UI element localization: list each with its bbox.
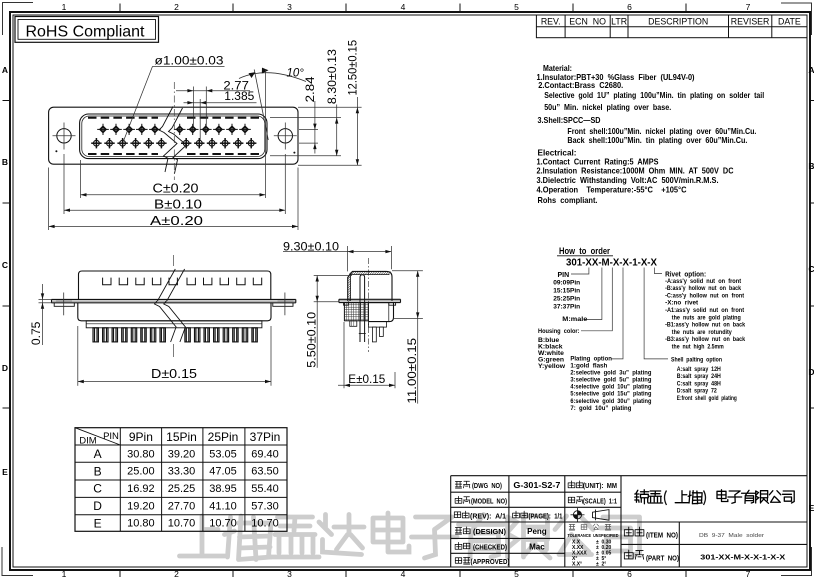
svg-text:B: B bbox=[94, 464, 102, 478]
svg-text:Peng: Peng bbox=[527, 527, 547, 536]
zone numbers bottom bbox=[62, 569, 751, 577]
svg-text:1.385: 1.385 bbox=[224, 91, 254, 103]
svg-text:(PART NO): (PART NO) bbox=[646, 554, 679, 563]
svg-text:Shell palting option: Shell palting option bbox=[671, 357, 722, 364]
svg-text:DIM: DIM bbox=[79, 436, 97, 447]
title block grid bbox=[451, 476, 807, 567]
svg-text:D: D bbox=[2, 363, 8, 373]
side view tail block bbox=[369, 322, 387, 328]
zone letters right bbox=[808, 65, 814, 513]
tolerance unspecified block bbox=[568, 524, 620, 567]
order option shell plating bbox=[671, 357, 737, 402]
svg-text:1: 1 bbox=[62, 2, 67, 12]
svg-text:ø1.00±0.03: ø1.00±0.03 bbox=[155, 55, 224, 67]
dimension 2.84 row spacing bbox=[299, 76, 318, 154]
svg-text:PIN: PIN bbox=[558, 272, 570, 279]
dimension table bbox=[75, 428, 287, 532]
side view center contact blade bbox=[359, 275, 366, 342]
svg-text:Plating option: Plating option bbox=[570, 356, 612, 363]
svg-text:G-301-S2-7: G-301-S2-7 bbox=[513, 481, 561, 490]
zone ticks right bbox=[810, 101, 814, 409]
dimension 9.30±0.10 bbox=[283, 241, 391, 271]
svg-text:9.30±0.10: 9.30±0.10 bbox=[283, 241, 339, 253]
svg-text:41.10: 41.10 bbox=[209, 500, 237, 512]
svg-text:7: gold 10u” plating: 7: gold 10u” plating bbox=[570, 405, 631, 412]
title block design row bbox=[455, 527, 546, 536]
svg-text:D: D bbox=[808, 367, 814, 377]
svg-text:301-XX-M-X-X-1-X-X: 301-XX-M-X-X-1-X-X bbox=[700, 552, 785, 561]
svg-text:(DWG NO): (DWG NO) bbox=[472, 481, 502, 490]
svg-text:(APPROVED): (APPROVED) bbox=[471, 557, 510, 566]
side view lower step hatched bbox=[350, 321, 357, 327]
zone letters left bbox=[2, 65, 8, 477]
middle view break line left bbox=[155, 269, 177, 342]
svg-text:DATE: DATE bbox=[778, 16, 801, 26]
svg-text:10.70: 10.70 bbox=[209, 518, 237, 530]
svg-text:5:selective gold 15u” plati: 5:selective gold 15u” plating bbox=[570, 391, 651, 398]
svg-text:A:salt spray 12H: A:salt spray 12H bbox=[677, 366, 721, 373]
svg-text:57.30: 57.30 bbox=[251, 500, 279, 512]
svg-text:E: E bbox=[809, 503, 814, 513]
svg-text:12.50±0.15: 12.50±0.15 bbox=[348, 40, 360, 96]
title block checked row bbox=[455, 542, 545, 551]
middle view insulator end ledges bbox=[54, 303, 293, 307]
svg-text:3.Shell:SPCC—SD: 3.Shell:SPCC—SD bbox=[538, 115, 601, 125]
side view under-flange steps bbox=[344, 303, 396, 306]
svg-text:(PAGE): 1/1: (PAGE): 1/1 bbox=[529, 511, 563, 520]
svg-text:(REV): A/1: (REV): A/1 bbox=[470, 511, 506, 520]
svg-text:1: 1 bbox=[62, 569, 67, 577]
svg-text:DB 9-37 Male solder: DB 9-37 Male solder bbox=[699, 533, 764, 539]
svg-text:4: 4 bbox=[401, 569, 406, 577]
svg-text:C: C bbox=[808, 264, 814, 274]
side view solder tail 2 bbox=[372, 327, 376, 342]
zone numbers top bbox=[62, 2, 751, 12]
svg-text:-C:ass'y hollow nut on fro: -C:ass'y hollow nut on front bbox=[665, 292, 745, 299]
svg-text:15Pin: 15Pin bbox=[166, 430, 197, 444]
svg-text:16.92: 16.92 bbox=[127, 483, 155, 495]
small reference dots bbox=[55, 150, 295, 153]
svg-text:E: E bbox=[2, 467, 8, 477]
svg-text:Mac: Mac bbox=[529, 543, 545, 552]
projection symbol cone bbox=[593, 510, 610, 521]
svg-text:2: 2 bbox=[174, 2, 179, 12]
svg-text:the nut high 2.5mm: the nut high 2.5mm bbox=[672, 344, 724, 351]
svg-text:DESCRIPTION: DESCRIPTION bbox=[648, 16, 708, 26]
svg-text:53.05: 53.05 bbox=[209, 448, 237, 460]
zone ticks top bbox=[120, 4, 686, 13]
svg-text:27.70: 27.70 bbox=[168, 500, 196, 512]
svg-text:RoHS Compliant: RoHS Compliant bbox=[26, 23, 146, 40]
svg-text:PIN: PIN bbox=[103, 431, 119, 442]
svg-text:A±0.20: A±0.20 bbox=[150, 213, 203, 228]
title block dwg no row bbox=[455, 481, 617, 490]
svg-text:E: E bbox=[94, 516, 102, 530]
svg-text:11.00±0.15: 11.00±0.15 bbox=[407, 338, 419, 404]
svg-text:15:15Pin: 15:15Pin bbox=[553, 287, 580, 294]
svg-text:C: C bbox=[2, 260, 8, 270]
middle view flange plate bbox=[52, 299, 296, 302]
front view shell dashed tab lines bbox=[88, 118, 259, 154]
dimension 12.50±0.15 flange height bbox=[298, 40, 362, 165]
svg-text:(UNIT): MM: (UNIT): MM bbox=[583, 481, 617, 490]
dimension 1.385 row offset bbox=[184, 91, 257, 140]
svg-text:3: 3 bbox=[287, 569, 292, 577]
svg-text:5: 5 bbox=[514, 2, 519, 12]
part no cell bbox=[624, 550, 785, 562]
dimension leader ø1.00±0.03 bbox=[123, 55, 224, 141]
middle view mounting centerline left bbox=[56, 293, 72, 316]
mounting hole left bbox=[53, 123, 76, 150]
svg-text:37:37Pin: 37:37Pin bbox=[553, 303, 580, 310]
svg-text:4:selective gold 10u” plati: 4:selective gold 10u” plating bbox=[570, 384, 651, 391]
svg-text:E±0.15: E±0.15 bbox=[348, 374, 385, 386]
svg-text:39.20: 39.20 bbox=[168, 448, 196, 460]
front view pin column centerline bbox=[173, 82, 175, 180]
side view body right half bbox=[369, 303, 394, 322]
svg-text:19.20: 19.20 bbox=[127, 500, 155, 512]
svg-text:7: 7 bbox=[746, 2, 751, 12]
dimension B±0.10 bbox=[64, 154, 285, 214]
svg-text:-A1:ass'y solid nut on fro: -A1:ass'y solid nut on front bbox=[665, 307, 745, 314]
svg-text:M:male: M:male bbox=[562, 316, 587, 323]
svg-text:5: 5 bbox=[514, 569, 519, 577]
svg-text:25.25: 25.25 bbox=[168, 483, 196, 495]
svg-text:0.75: 0.75 bbox=[31, 322, 43, 346]
svg-text:A: A bbox=[808, 65, 814, 75]
title block rev row bbox=[454, 511, 562, 520]
svg-text:the nuts are gold plating: the nuts are gold plating bbox=[672, 314, 741, 321]
svg-text:2.84: 2.84 bbox=[305, 76, 317, 103]
svg-text:B: B bbox=[2, 157, 8, 167]
svg-text:Housing color:: Housing color: bbox=[538, 328, 580, 335]
svg-text:5.50±0.10: 5.50±0.10 bbox=[307, 312, 319, 368]
svg-text:4.Operation Temperature:-55: 4.Operation Temperature:-55°C +105°C bbox=[537, 185, 687, 195]
svg-text:(CHECKED): (CHECKED) bbox=[473, 543, 507, 552]
svg-text:REV.: REV. bbox=[541, 16, 561, 26]
side view insulator section hatched bbox=[344, 303, 368, 321]
svg-text:-B:ass'y hollow nut on bac: -B:ass'y hollow nut on back bbox=[665, 285, 741, 292]
svg-text:37Pin: 37Pin bbox=[250, 430, 281, 444]
RoHS Compliant label box bbox=[15, 17, 159, 43]
dimension E±0.15 bbox=[338, 322, 395, 388]
svg-text:69.40: 69.40 bbox=[251, 448, 279, 460]
svg-text:E:front shell gold plating: E:front shell gold plating bbox=[677, 395, 737, 402]
svg-text:3.Dielectric Withstanding Vo: 3.Dielectric Withstanding Volt:AC 500V/m… bbox=[537, 175, 719, 185]
svg-text:A: A bbox=[94, 447, 102, 461]
middle view shell face notches bbox=[103, 278, 262, 285]
middle view vertical centerline bbox=[173, 255, 175, 357]
svg-text:6: 6 bbox=[627, 569, 632, 577]
company name 锦孟（上海）电子有限公司 bbox=[635, 490, 794, 505]
svg-text:B±0.10: B±0.10 bbox=[154, 196, 202, 211]
svg-text:X.X°: X.X° bbox=[572, 562, 582, 568]
dimension angle 10 degrees bbox=[239, 68, 306, 141]
dimension 8.30±0.13 shell height bbox=[270, 49, 341, 156]
svg-text:Selective gold 1U” plating: Selective gold 1U” plating 100u”Min. tin… bbox=[544, 90, 764, 100]
svg-text:B: B bbox=[808, 161, 814, 171]
title block approved row bbox=[455, 557, 510, 566]
svg-text:-A:ass'y solid nut on fron: -A:ass'y solid nut on front bbox=[665, 278, 742, 285]
svg-text:TOLERANCE UNSPECIFIED: TOLERANCE UNSPECIFIED bbox=[568, 533, 620, 538]
svg-text:301-XX-M-X-X-1-X-X: 301-XX-M-X-X-1-X-X bbox=[566, 258, 657, 269]
front view flange outline bbox=[49, 107, 298, 164]
svg-text:D:salt spray 72: D:salt spray 72 bbox=[677, 388, 717, 395]
svg-text:the nuts are rotundity: the nuts are rotundity bbox=[672, 329, 732, 336]
side view solder tail 3 bbox=[379, 327, 383, 336]
dimension 11.00±0.15 bbox=[392, 271, 423, 404]
side view flange plate bbox=[339, 299, 401, 302]
svg-text:A: A bbox=[2, 65, 8, 75]
svg-text:33.30: 33.30 bbox=[168, 466, 196, 478]
svg-text:9Pin: 9Pin bbox=[129, 430, 153, 444]
dimension C±0.20 bbox=[81, 70, 266, 199]
svg-text:38.95: 38.95 bbox=[209, 483, 237, 495]
svg-text:47.05: 47.05 bbox=[209, 466, 237, 478]
svg-text:2.Contact:Brass C2680.: 2.Contact:Brass C2680. bbox=[538, 80, 623, 90]
order option gender male bbox=[562, 316, 587, 323]
svg-text:63.50: 63.50 bbox=[251, 466, 279, 478]
zone ticks bottom bbox=[120, 570, 686, 577]
svg-text:C±0.20: C±0.20 bbox=[153, 181, 199, 196]
order option pin counts bbox=[553, 272, 580, 311]
svg-text:-B1:ass'y hollow nut on ba: -B1:ass'y hollow nut on back bbox=[665, 322, 745, 329]
how to order heading bbox=[557, 246, 613, 256]
svg-text:6: 6 bbox=[627, 2, 632, 12]
svg-text:ECN NO: ECN NO bbox=[569, 16, 606, 26]
middle view break line right bbox=[164, 269, 186, 342]
side view vertical centerline bbox=[368, 258, 370, 352]
svg-text:50u” Min. nickel plating o: 50u” Min. nickel plating over base. bbox=[544, 102, 671, 112]
svg-text:8.30±0.13: 8.30±0.13 bbox=[327, 49, 339, 104]
svg-text:± 2°: ± 2° bbox=[596, 562, 606, 568]
svg-text:10.70: 10.70 bbox=[168, 518, 196, 530]
svg-text:3: 3 bbox=[287, 2, 292, 12]
side view shell hood section bbox=[348, 271, 392, 301]
front view D-shell opening outer bbox=[80, 114, 267, 159]
svg-text:D: D bbox=[93, 499, 102, 513]
svg-text:25.00: 25.00 bbox=[127, 466, 155, 478]
svg-text:3:selective gold 5u” platin: 3:selective gold 5u” plating bbox=[570, 377, 651, 384]
zone ticks left bbox=[3, 101, 11, 409]
svg-text:REVISER: REVISER bbox=[731, 16, 770, 26]
svg-text:D±0.15: D±0.15 bbox=[151, 366, 197, 381]
title block model no row bbox=[455, 496, 617, 505]
front view break line right bbox=[169, 108, 187, 174]
svg-text:Back shell:100u”Min. tin pl: Back shell:100u”Min. tin plating over 60… bbox=[567, 135, 747, 145]
svg-text:4: 4 bbox=[401, 2, 406, 12]
svg-text:09:09Pin: 09:09Pin bbox=[553, 279, 580, 286]
order code 301-XX-M-X-X-1-X-X bbox=[566, 258, 657, 269]
order option housing color bbox=[538, 328, 580, 370]
middle view tail housing bbox=[86, 321, 262, 328]
svg-text:6:selective gold 30u” plati: 6:selective gold 30u” plating bbox=[570, 398, 651, 405]
watermark text 上海孟达电子有限公司 bbox=[180, 513, 640, 560]
svg-text:-X:no rivet: -X:no rivet bbox=[665, 300, 699, 307]
svg-text:2: 2 bbox=[174, 569, 179, 577]
svg-text:25:25Pin: 25:25Pin bbox=[553, 295, 580, 302]
revision table header bbox=[536, 15, 807, 38]
side view hood wall hatching bbox=[348, 272, 391, 302]
svg-text:C: C bbox=[93, 482, 102, 496]
svg-text:(MODEL NO): (MODEL NO) bbox=[471, 497, 507, 506]
order tree connector lines bbox=[571, 268, 668, 359]
front view contact pins bottom row bbox=[91, 138, 256, 148]
svg-text:Y:yellow: Y:yellow bbox=[538, 363, 566, 370]
svg-text:10.70: 10.70 bbox=[251, 518, 279, 530]
svg-text:C:salt spray 48H: C:salt spray 48H bbox=[677, 380, 721, 387]
mounting hole right bbox=[274, 123, 297, 150]
svg-text:LTR: LTR bbox=[611, 16, 627, 26]
front view contact pins top row bbox=[97, 124, 251, 135]
svg-text:10°: 10° bbox=[287, 68, 305, 80]
svg-text:(SCALE) 1:1: (SCALE) 1:1 bbox=[583, 497, 617, 506]
svg-text:30.80: 30.80 bbox=[127, 448, 155, 460]
svg-text:10.80: 10.80 bbox=[127, 518, 155, 530]
svg-text:B:salt spray 24H: B:salt spray 24H bbox=[677, 373, 721, 380]
svg-text:(DESIGN): (DESIGN) bbox=[473, 527, 506, 536]
front view D-shell opening inner bbox=[82, 116, 265, 157]
svg-text:7: 7 bbox=[746, 569, 751, 577]
svg-text:Rohs compliant.: Rohs compliant. bbox=[538, 195, 598, 205]
order option rivet bbox=[665, 271, 745, 350]
svg-text:55.40: 55.40 bbox=[251, 483, 279, 495]
middle view mounting centerline right bbox=[278, 293, 294, 316]
svg-text:2:selective gold 3u” platin: 2:selective gold 3u” plating bbox=[570, 370, 651, 377]
dimension 0.75 flange thickness bbox=[31, 284, 52, 345]
dimension D±0.15 bbox=[78, 326, 271, 386]
projection symbol target bbox=[571, 508, 585, 522]
material and electrical notes bbox=[537, 63, 765, 205]
middle view insulator body bbox=[78, 303, 271, 321]
dimension A±0.20 bbox=[49, 168, 298, 231]
svg-text:1:gold flash: 1:gold flash bbox=[570, 363, 607, 370]
svg-text:(ITEM NO): (ITEM NO) bbox=[646, 531, 678, 540]
dimension 2.77 pin pitch bbox=[176, 81, 250, 127]
middle view solder tails bbox=[93, 328, 257, 342]
svg-text:How to order: How to order bbox=[559, 246, 610, 256]
middle view shell hood outline bbox=[79, 271, 271, 299]
front view break line left bbox=[159, 107, 177, 173]
dimension 5.50±0.10 bbox=[307, 276, 353, 368]
svg-text:-B3:ass'y hollow nut on ba: -B3:ass'y hollow nut on back bbox=[665, 336, 745, 343]
svg-text:25Pin: 25Pin bbox=[208, 430, 239, 444]
order option plating bbox=[570, 356, 651, 412]
item no cell bbox=[624, 527, 764, 539]
